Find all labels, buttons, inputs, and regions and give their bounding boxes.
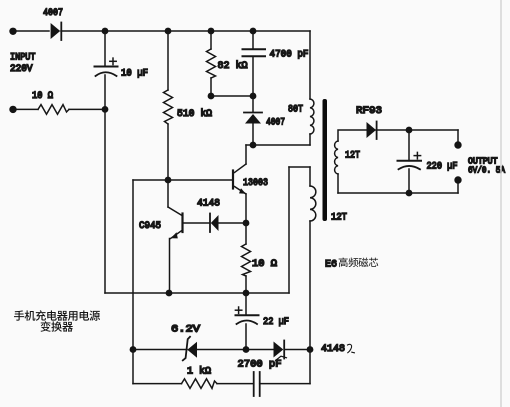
wire primary bottom rail <box>246 144 310 146</box>
transformer secondary winding 12T <box>335 141 338 174</box>
svg-text:22 µF: 22 µF <box>263 316 289 328</box>
wire secondary bottom rail <box>338 192 458 194</box>
stray pen mark above 2700 pF <box>276 356 287 360</box>
svg-text:82 kΩ: 82 kΩ <box>218 60 248 72</box>
wire bottom loop mid <box>217 383 254 385</box>
wire 4148 to emitter node <box>219 222 247 224</box>
wire 4700pF bottom lead <box>252 57 254 96</box>
wire 82k bottom lead <box>210 78 212 96</box>
wire 22uF top lead <box>245 293 247 315</box>
transistor Q1 13003 <box>233 164 246 194</box>
wire input resistor right lead <box>69 108 105 110</box>
svg-text:1 kΩ: 1 kΩ <box>187 365 211 377</box>
wire bottom loop left vertical <box>132 350 134 384</box>
node junction snubber bottom x211 <box>208 93 215 100</box>
caption chinese title line1 手机充电器用电源 <box>14 310 100 321</box>
node junction top rail x168 <box>165 28 172 35</box>
node junction collector rail <box>250 142 257 149</box>
wire emitter resistor top lead <box>245 223 247 244</box>
node junction top rail x211 <box>208 28 215 35</box>
node output positive terminal <box>454 141 461 148</box>
wire bottom loop left horizontal <box>133 383 182 385</box>
svg-text:4700 pF: 4700 pF <box>270 49 309 61</box>
wire left column down <box>104 109 106 293</box>
resistor R2 510k <box>164 90 173 124</box>
wire 22uF bottom lead <box>245 324 247 350</box>
diode 4007 input rectifier <box>51 23 62 41</box>
svg-text:13003: 13003 <box>243 177 268 189</box>
node junction winding bottom x310 <box>307 346 314 353</box>
wire secondary top corner <box>338 130 366 141</box>
diode D5 RF93 <box>367 122 377 140</box>
svg-text:4007: 4007 <box>43 7 63 19</box>
wire bottom rail <box>105 292 289 294</box>
wire feedback winding return vertical <box>288 167 290 293</box>
caption chinese title line2 变换器 <box>41 321 73 332</box>
svg-text:C945: C945 <box>139 220 161 232</box>
diode D4 4148 feedback <box>274 341 285 359</box>
capacitor C3 22uF <box>235 307 258 324</box>
svg-text:12T: 12T <box>345 149 360 161</box>
svg-text:6.2V: 6.2V <box>171 323 201 335</box>
wire top rail main segment <box>61 30 310 32</box>
svg-text:10 µF: 10 µF <box>121 67 148 79</box>
wire primary top lead <box>309 31 311 99</box>
wire zener rail mid <box>197 349 246 351</box>
svg-text:510 kΩ: 510 kΩ <box>177 108 212 120</box>
wire bottom loop right horizontal <box>260 383 310 385</box>
node junction x105 y108 <box>102 106 109 113</box>
transformer core E6 <box>323 99 328 221</box>
node junction zener rail x133 <box>130 346 137 353</box>
svg-text:10 Ω: 10 Ω <box>32 90 53 102</box>
node input neutral terminal <box>9 106 16 113</box>
svg-text:220 µF: 220 µF <box>427 160 458 172</box>
capacitor C4 2700pF <box>254 372 260 396</box>
wire 4148 to winding node <box>285 349 310 351</box>
node junction output cap top <box>406 127 413 134</box>
capacitor C1 10uF electrolytic <box>95 58 118 76</box>
label core type 高频磁芯 <box>339 258 379 268</box>
transistor Q2 C945 collector lead <box>167 180 169 207</box>
wire output bottom rise <box>457 180 459 193</box>
wire C945 emitter down <box>169 239 171 294</box>
svg-text:E6: E6 <box>325 259 337 271</box>
wire emitter lead down <box>245 194 247 223</box>
zener diode ZD1 6.2V <box>183 337 197 361</box>
node junction emitter x246 y223 <box>243 220 250 227</box>
svg-text:12T: 12T <box>331 211 347 223</box>
svg-text:220V: 220V <box>10 64 33 75</box>
transistor Q2 C945 <box>168 207 183 239</box>
wire secondary bottom lead <box>337 174 339 193</box>
wire filter cap bottom lead <box>104 75 106 109</box>
svg-text:10 Ω: 10 Ω <box>252 258 277 270</box>
stray pen mark after 4148 <box>348 344 355 353</box>
wire primary bottom lead <box>309 134 311 145</box>
transformer primary winding 80T <box>310 99 314 134</box>
wire 4700pF top lead <box>252 31 254 49</box>
wire zener rail right <box>246 349 274 351</box>
node junction base drive y180 <box>165 177 172 184</box>
wire feedback winding top lead <box>309 167 311 186</box>
wire input resistor left lead <box>12 108 38 110</box>
resistor R4 10 ohm emitter <box>242 244 251 276</box>
svg-text:INPUT: INPUT <box>10 52 36 63</box>
wire left feedback loop vertical <box>132 180 134 350</box>
wire 510k bottom lead <box>167 124 169 180</box>
wire feedback winding bottom lead <box>309 221 311 350</box>
wire emitter resistor bottom lead <box>245 276 247 293</box>
capacitor C5 220uF output <box>398 152 422 169</box>
node junction top rail x253 <box>250 28 257 35</box>
wire 220uF top lead <box>408 130 410 161</box>
svg-text:4007: 4007 <box>266 116 285 128</box>
wire top rail left segment <box>12 30 49 32</box>
diode D3 4148 base <box>210 214 219 233</box>
wire snubber bottom rail <box>211 95 253 97</box>
node junction emitter rail x169 <box>166 290 173 297</box>
svg-text:RF93: RF93 <box>356 105 382 117</box>
wire 82k top lead <box>210 31 212 49</box>
wire clamp diode top lead <box>252 96 254 112</box>
node junction snubber bottom x253 <box>250 93 257 100</box>
transformer feedback winding 12T <box>310 186 316 221</box>
resistor R5 1k <box>182 379 218 389</box>
resistor R1 10 ohm input <box>38 105 69 115</box>
node output negative terminal <box>454 176 461 183</box>
wire feedback winding top horizontal <box>289 166 310 168</box>
svg-text:4148: 4148 <box>197 198 220 210</box>
node input live terminal <box>9 28 16 35</box>
wire clamp diode bottom lead <box>252 124 254 146</box>
svg-text:4148: 4148 <box>321 343 345 355</box>
capacitor C2 4700pF snubber <box>243 49 266 56</box>
wire output top drop <box>457 130 459 145</box>
resistor R3 82k snubber <box>207 49 216 78</box>
node junction bottom rail x246 <box>243 290 250 297</box>
node junction zener rail x246 <box>243 346 250 353</box>
wire filter cap top lead <box>104 31 106 66</box>
wire left feedback loop horizontal <box>133 179 168 181</box>
wire zener rail left <box>133 349 187 351</box>
wire bottom loop right vertical <box>309 350 311 384</box>
node junction top rail x105 <box>102 28 109 35</box>
wire secondary top rail <box>376 129 458 131</box>
svg-text:2700 pF: 2700 pF <box>238 358 282 370</box>
wire base rail y180 <box>168 179 232 181</box>
svg-text:6V/0. 5A: 6V/0. 5A <box>468 166 506 176</box>
wire 220uF bottom lead <box>408 169 410 193</box>
decorative right page border <box>500 0 502 407</box>
diode D2 4007 clamp <box>244 113 262 124</box>
node junction output cap bottom <box>406 190 413 197</box>
svg-text:80T: 80T <box>288 104 303 116</box>
wire 510k top lead <box>167 31 169 90</box>
wire C945 base lead <box>184 222 210 224</box>
transistor Q1 13003 collector lead <box>245 145 247 164</box>
